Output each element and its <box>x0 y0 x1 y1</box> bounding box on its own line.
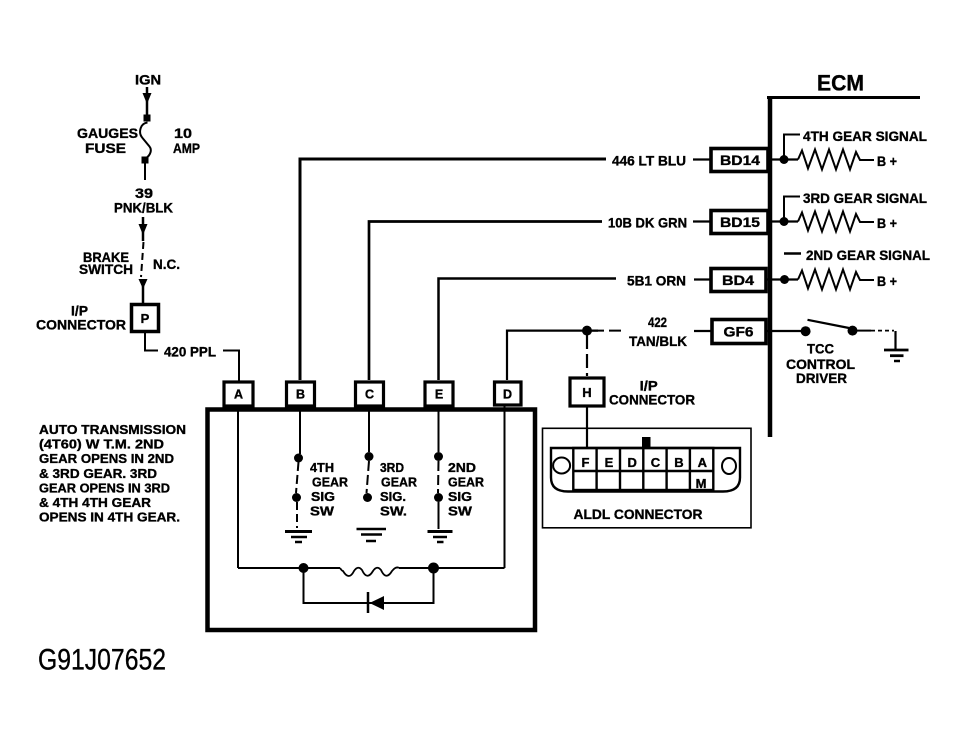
svg-text:B: B <box>296 388 305 402</box>
svg-text:E: E <box>605 455 614 470</box>
label GAUGES FUSE <box>77 125 138 156</box>
svg-text:2ND GEAR SIGNAL: 2ND GEAR SIGNAL <box>806 247 930 263</box>
svg-text:ECM: ECM <box>817 71 864 96</box>
svg-text:TCC: TCC <box>807 341 834 357</box>
ECM terminal BD14 <box>711 149 768 172</box>
TCC control driver switch <box>801 320 858 336</box>
svg-text:B +: B + <box>877 153 897 169</box>
wire up to 3RD GEAR SIGNAL label <box>784 197 800 222</box>
wire junction down to H <box>586 335 588 376</box>
junction dot row3 <box>780 275 789 284</box>
resistor 4th gear pull-up <box>798 150 874 170</box>
wire bus left section <box>238 567 340 569</box>
ECM terminal BD4 <box>711 269 766 292</box>
label 4TH GEAR SIG SW <box>310 460 348 519</box>
svg-text:3RD: 3RD <box>380 460 404 475</box>
wire connector D up and right to 422 junction <box>507 331 598 380</box>
wire 446 to BD14 <box>693 158 711 160</box>
wire label to GF6 <box>694 330 712 332</box>
wire B down to 4th gear switch <box>299 406 301 454</box>
svg-text:4TH: 4TH <box>310 460 334 475</box>
wire GF6 to TCC switch <box>766 330 806 332</box>
svg-text:D: D <box>628 455 637 470</box>
svg-text:CONNECTOR: CONNECTOR <box>609 392 695 408</box>
solenoid coil <box>340 567 399 576</box>
svg-text:A: A <box>698 455 708 470</box>
svg-text:C: C <box>651 455 661 470</box>
note text AUTO TRANSMISSION <box>39 422 186 525</box>
junction dot bus right <box>428 563 439 574</box>
svg-text:GEAR: GEAR <box>312 475 348 490</box>
svg-text:(4T60) W T.M. 2ND: (4T60) W T.M. 2ND <box>39 437 164 452</box>
wire 10B to BD15 <box>693 220 711 222</box>
diode CR1 <box>368 592 384 613</box>
dash before 2ND GEAR SIGNAL <box>784 252 801 255</box>
ground 4th gear switch <box>285 532 312 543</box>
wire D down to bus <box>504 406 506 568</box>
svg-text:N.C.: N.C. <box>153 256 180 272</box>
wire bus right section <box>399 567 505 569</box>
wire 5B1 to BD4 <box>694 278 711 280</box>
wire BD15 to resistor <box>770 220 798 222</box>
svg-text:A: A <box>234 388 243 402</box>
svg-text:GEAR OPENS IN 2ND: GEAR OPENS IN 2ND <box>39 451 174 466</box>
junction dot row2 <box>780 217 789 226</box>
svg-text:SW: SW <box>448 504 473 519</box>
svg-text:GAUGES: GAUGES <box>77 125 138 141</box>
label 3RD GEAR SIG. SW. <box>380 460 417 519</box>
svg-text:TAN/BLK: TAN/BLK <box>629 333 687 349</box>
svg-text:DRIVER: DRIVER <box>796 370 847 386</box>
label I/P CONNECTOR (right) <box>609 378 695 408</box>
svg-text:446 LT BLU: 446 LT BLU <box>612 153 686 169</box>
svg-text:5B1 ORN: 5B1 ORN <box>627 273 686 289</box>
svg-text:& 3RD GEAR. 3RD: & 3RD GEAR. 3RD <box>39 466 157 481</box>
svg-text:M: M <box>696 476 707 491</box>
wire connector C up and right to 10B DK GRN <box>369 222 602 381</box>
switch 2ND GEAR SIG SW <box>434 452 443 529</box>
svg-text:AUTO TRANSMISSION: AUTO TRANSMISSION <box>39 422 186 437</box>
junction dot bus left <box>299 563 309 573</box>
wire BD4 to resistor <box>766 278 798 280</box>
svg-text:GEAR: GEAR <box>381 475 417 490</box>
svg-text:GF6: GF6 <box>724 324 754 340</box>
wire C down to 3rd gear switch <box>368 406 370 452</box>
connector H box <box>570 378 604 406</box>
wire up to 4TH GEAR SIGNAL label <box>784 135 800 160</box>
svg-text:D: D <box>503 388 512 402</box>
ECM terminal GF6 <box>712 320 766 344</box>
wire down with arrow to brake switch <box>139 217 148 241</box>
connector E box <box>425 382 453 406</box>
brake switch N.C. blade <box>141 242 144 277</box>
svg-text:SIG.: SIG. <box>380 489 406 504</box>
svg-text:SWITCH: SWITCH <box>79 261 133 277</box>
svg-text:FUSE: FUSE <box>85 140 126 156</box>
ground 2nd gear switch <box>428 532 453 543</box>
connector A box <box>224 382 253 406</box>
connector D box <box>495 382 522 405</box>
svg-text:GEAR OPENS IN 3RD: GEAR OPENS IN 3RD <box>39 480 170 495</box>
connector C box <box>356 382 384 406</box>
label 422 TAN/BLK <box>629 314 687 349</box>
wire P to 420 PPL <box>145 333 158 351</box>
label 39 PNK/BLK <box>114 185 173 216</box>
label TCC CONTROL DRIVER <box>786 341 855 387</box>
ECM terminal BD15 <box>711 211 768 234</box>
wire fuse to label 39 <box>144 163 146 180</box>
ECM left boundary line <box>768 96 773 437</box>
label I/P CONNECTOR (left) <box>36 303 126 333</box>
wire A down to bus <box>237 406 239 568</box>
svg-text:SIG: SIG <box>311 489 335 504</box>
svg-text:B: B <box>674 455 683 470</box>
wire H to ALDL pin F <box>586 406 588 449</box>
fuse F1 GAUGES 10A <box>140 123 151 159</box>
svg-text:AMP: AMP <box>173 140 200 156</box>
svg-text:SW: SW <box>310 504 335 519</box>
junction dot 422 TAN/BLK <box>582 326 592 336</box>
wire switch to ground <box>857 331 896 350</box>
ALDL pin grid <box>573 448 713 490</box>
svg-text:3RD GEAR SIGNAL: 3RD GEAR SIGNAL <box>803 190 927 206</box>
label 10 AMP <box>173 125 200 156</box>
svg-text:420 PPL: 420 PPL <box>164 344 216 360</box>
svg-text:B +: B + <box>877 215 897 231</box>
label 2ND GEAR SIG SW <box>448 460 484 519</box>
wire arrow into I/P connector P <box>139 279 148 303</box>
wire junction to label 422 <box>592 330 622 332</box>
wire diode branch <box>304 568 434 603</box>
wire IGN down with arrow <box>143 87 152 117</box>
wire E down to 2nd gear switch <box>438 406 440 452</box>
svg-text:IGN: IGN <box>135 72 161 88</box>
ECM top boundary line <box>767 96 920 99</box>
label BRAKE SWITCH <box>79 249 133 277</box>
svg-text:422: 422 <box>648 314 667 330</box>
wire 420 PPL to connector A <box>223 351 239 382</box>
ALDL connector body <box>551 448 740 492</box>
svg-text:10: 10 <box>174 125 192 141</box>
ALDL top tab <box>642 437 651 447</box>
ALDL right mounting hole <box>722 458 736 474</box>
connector B box <box>287 382 315 406</box>
svg-text:ALDL CONNECTOR: ALDL CONNECTOR <box>574 506 703 522</box>
ground 3rd gear switch <box>357 529 387 541</box>
svg-text:F: F <box>582 455 590 470</box>
svg-text:SIG: SIG <box>448 489 472 504</box>
svg-text:C: C <box>365 388 374 402</box>
resistor 3rd gear pull-up <box>798 212 874 232</box>
svg-text:10B DK GRN: 10B DK GRN <box>608 215 687 231</box>
svg-text:G91J07652: G91J07652 <box>38 644 166 677</box>
wire connector E up and right to 5B1 ORN <box>439 279 617 381</box>
ALDL left mounting hole <box>553 458 570 474</box>
svg-text:CONNECTOR: CONNECTOR <box>36 317 126 333</box>
svg-text:BD4: BD4 <box>722 272 754 288</box>
svg-text:E: E <box>435 388 443 402</box>
svg-text:PNK/BLK: PNK/BLK <box>114 200 173 216</box>
switch 3RD GEAR SIG SW <box>363 452 374 502</box>
svg-text:& 4TH 4TH GEAR: & 4TH 4TH GEAR <box>39 495 151 510</box>
svg-text:BD14: BD14 <box>720 152 760 168</box>
svg-text:4TH GEAR SIGNAL: 4TH GEAR SIGNAL <box>803 128 927 144</box>
svg-text:SW.: SW. <box>380 504 407 519</box>
svg-text:P: P <box>141 311 150 326</box>
svg-text:B +: B + <box>877 273 897 289</box>
fuse bottom terminal dot <box>142 157 149 164</box>
wire connector B up and right to 446 LT BLU <box>300 159 606 380</box>
junction dot row1 <box>780 155 789 164</box>
fuse top terminal dot <box>144 115 151 122</box>
wire BD14 to resistor <box>770 158 798 160</box>
svg-text:OPENS IN 4TH GEAR.: OPENS IN 4TH GEAR. <box>39 510 180 525</box>
transmission main box <box>208 410 536 631</box>
connector P box <box>132 305 159 332</box>
resistor 2nd gear pull-up <box>798 270 874 290</box>
switch 4TH GEAR SIG SW <box>292 454 303 529</box>
svg-text:GEAR: GEAR <box>448 475 484 490</box>
ground TCC <box>884 350 909 361</box>
ALDL connector outer box <box>543 428 752 528</box>
svg-text:2ND: 2ND <box>448 460 476 475</box>
svg-text:H: H <box>582 385 591 400</box>
svg-text:BD15: BD15 <box>720 214 760 230</box>
